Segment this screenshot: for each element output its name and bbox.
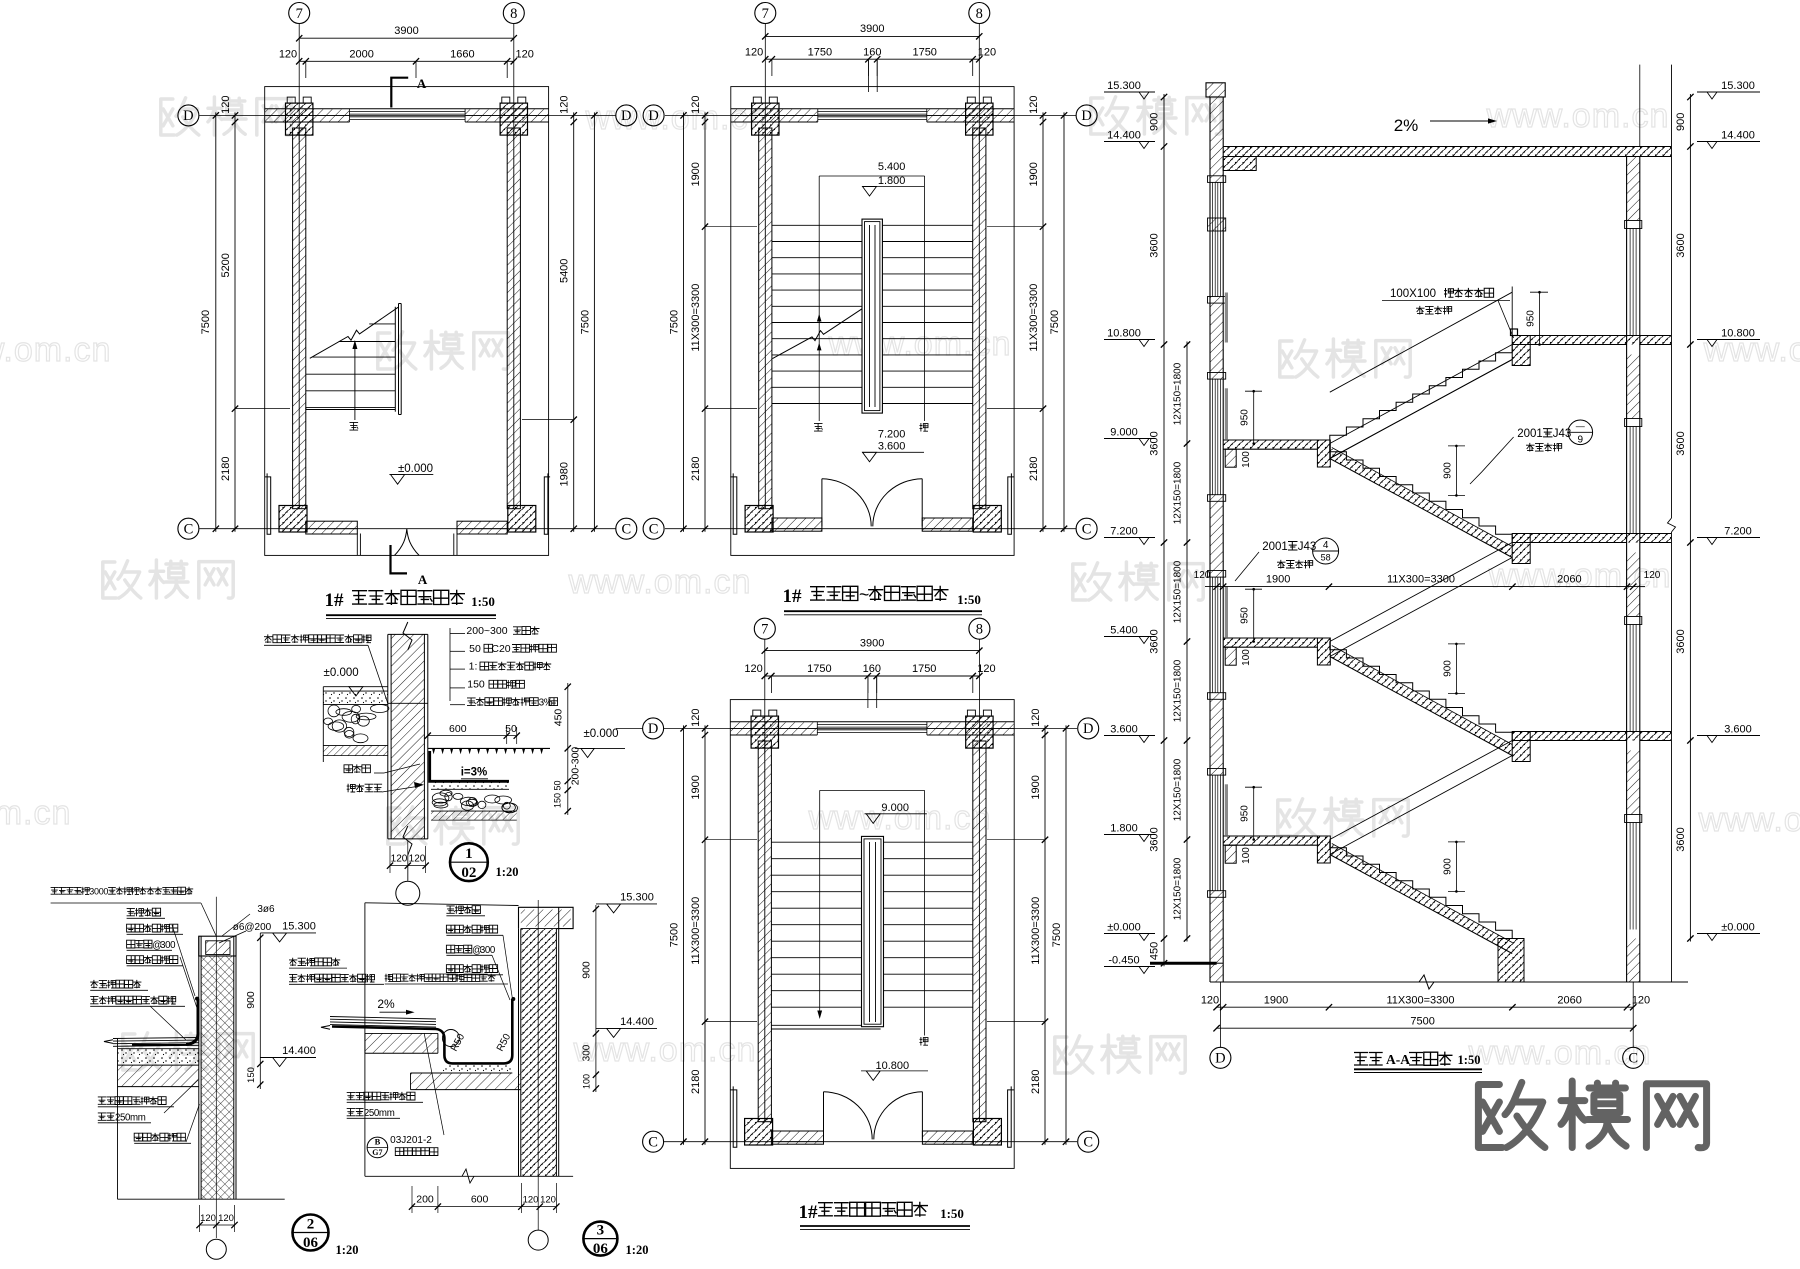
sectioned flight going down <box>1330 444 1512 543</box>
svg-text:2180: 2180 <box>690 456 702 480</box>
svg-text:2: 2 <box>307 1217 315 1233</box>
plan3 left dims <box>704 725 706 1144</box>
detail2 roof layers left <box>113 1038 199 1039</box>
svg-text:5200: 5200 <box>220 253 232 277</box>
section bottom axis extensions and bubbles <box>1219 982 1221 1047</box>
plan outer boundary <box>731 87 1014 556</box>
plan2 bottom wall centre line <box>772 528 822 530</box>
svg-text:±0.000: ±0.000 <box>324 667 359 679</box>
svg-text:1#: 1# <box>799 1202 819 1223</box>
columns on axes 7 and 8 <box>286 103 313 135</box>
detail2 levels <box>260 932 316 934</box>
window in left wall <box>1212 775 1214 891</box>
detail1 right dims <box>567 683 569 815</box>
svg-text:D: D <box>621 108 631 124</box>
svg-text:50: 50 <box>553 780 563 790</box>
ground line <box>1210 981 1688 983</box>
svg-text:1750: 1750 <box>808 46 832 58</box>
svg-text:9: 9 <box>1578 435 1584 446</box>
detail2 ref circle 2/06 <box>293 1215 329 1251</box>
svg-text:1980: 1980 <box>559 462 571 486</box>
svg-text:D: D <box>1083 721 1093 737</box>
svg-text:200-300: 200-300 <box>570 747 582 786</box>
svg-text:200~300: 200~300 <box>466 625 507 637</box>
landing slabs left side <box>1223 836 1328 845</box>
svg-text:450: 450 <box>1149 942 1161 960</box>
100x100 upstand at 10.800 <box>1511 329 1518 336</box>
minus 0.450 floor line <box>1150 962 1217 965</box>
svg-text:100: 100 <box>582 1074 592 1089</box>
svg-text:7: 7 <box>762 6 769 22</box>
svg-text:1:20: 1:20 <box>626 1243 649 1257</box>
svg-text:14.400: 14.400 <box>1107 130 1141 142</box>
columns on axes 7 and 8 <box>751 716 778 748</box>
svg-text:9.000: 9.000 <box>881 802 909 814</box>
svg-text:1:50: 1:50 <box>957 592 981 607</box>
detail1 ref circle 1/02 <box>450 843 488 881</box>
bottom corner columns <box>745 1119 773 1146</box>
section right dim column <box>1689 94 1691 942</box>
window in left wall <box>1212 182 1214 296</box>
svg-text:1750: 1750 <box>912 663 936 675</box>
sectioned flight going down <box>1330 840 1512 939</box>
left wall <box>758 741 771 1122</box>
detail2 wall centreline <box>215 897 217 1238</box>
svg-text:±0.000: ±0.000 <box>1107 922 1141 934</box>
svg-text:1900: 1900 <box>690 162 702 186</box>
svg-text:m: m <box>138 1113 146 1124</box>
svg-text:C: C <box>649 522 659 538</box>
svg-text:~: ~ <box>859 585 869 605</box>
svg-text:0: 0 <box>170 940 176 951</box>
plan outer boundary <box>730 700 1014 1169</box>
detail3 left notes <box>289 958 340 966</box>
svg-text:120: 120 <box>391 854 408 865</box>
svg-text:7500: 7500 <box>669 310 681 334</box>
plan2 bottom walls <box>772 518 822 531</box>
svg-text:1: 1 <box>465 846 473 862</box>
plan2 dim 3900 <box>765 35 979 37</box>
svg-text:3900: 3900 <box>860 637 884 649</box>
detail1 damp-proof labels <box>344 764 370 773</box>
section left parapet <box>1206 83 1225 97</box>
svg-text:11X300=3300: 11X300=3300 <box>1387 574 1455 586</box>
svg-text:120: 120 <box>279 49 297 61</box>
svg-text:900: 900 <box>245 991 257 1009</box>
svg-text:120: 120 <box>540 1195 556 1206</box>
svg-text:7: 7 <box>761 622 768 638</box>
svg-text:7500: 7500 <box>1051 923 1063 947</box>
svg-text:7.200: 7.200 <box>1724 526 1752 538</box>
plan2 central rail <box>862 219 882 413</box>
svg-text:150: 150 <box>553 793 563 808</box>
plan2 wing walls <box>730 473 737 534</box>
plan1 axis extension lines <box>298 24 300 141</box>
top wall with window <box>731 108 1014 110</box>
plan1 axis D bubble right <box>616 105 637 126</box>
950 dim top right <box>1539 292 1541 344</box>
plan3 label down <box>920 1037 929 1046</box>
svg-text:100: 100 <box>1241 451 1252 468</box>
detail3 right dims <box>595 905 597 1092</box>
far flight outline going up <box>1330 345 1512 444</box>
svg-text:i=3%: i=3% <box>461 767 488 779</box>
detail1 dim 600 50 <box>428 735 517 737</box>
plan2 label down <box>920 423 929 432</box>
top flight 9.000 to 10.800 <box>1330 345 1512 444</box>
svg-text:±0.000: ±0.000 <box>583 728 618 740</box>
detail2 note texts <box>51 886 194 896</box>
detail1 left floor layers <box>323 691 388 704</box>
svg-text:2001: 2001 <box>1262 541 1288 553</box>
detail2 bottom boundary <box>118 1198 285 1200</box>
svg-text:06: 06 <box>303 1235 319 1251</box>
svg-text:8: 8 <box>976 6 983 22</box>
svg-text:100: 100 <box>1241 847 1252 864</box>
plan3 dim 3900 <box>765 650 980 652</box>
right boundary line <box>1671 65 1673 518</box>
detail3 boundary <box>364 903 366 1177</box>
detail2 right dims <box>259 933 261 1089</box>
svg-text:120: 120 <box>745 46 763 58</box>
detail1 axis stub circle <box>396 881 420 905</box>
plan1 break line with zigzag <box>310 307 399 359</box>
svg-text:1#: 1# <box>783 586 803 607</box>
plan1 axis 8 bubble <box>503 3 524 24</box>
svg-text:12X150=1800: 12X150=1800 <box>1173 461 1184 524</box>
svg-text:120: 120 <box>218 1213 234 1224</box>
svg-text:120: 120 <box>977 663 995 675</box>
plan3 double door <box>823 1092 825 1140</box>
svg-text:150: 150 <box>246 1067 257 1083</box>
svg-text:120: 120 <box>516 49 534 61</box>
plan3 central rail <box>862 836 884 1026</box>
plan1 axis C bubble right <box>616 518 637 539</box>
landing left beam <box>1225 845 1236 863</box>
section left dim columns <box>1163 94 1165 966</box>
plan3 stair treads <box>771 841 972 843</box>
plan3 walk path + down arrow <box>820 789 925 791</box>
svg-text:3: 3 <box>597 1223 605 1239</box>
plan1 axis C bubble left <box>178 518 199 539</box>
plan2 axis bubbles <box>643 105 664 126</box>
bottom corner columns <box>745 506 773 533</box>
svg-text:D: D <box>183 108 193 124</box>
detail3 parapet cap with lip <box>519 907 574 928</box>
svg-text:ø6@200: ø6@200 <box>233 922 272 933</box>
svg-text:www.om.cn: www.om.cn <box>1698 801 1800 839</box>
svg-text:12X150=1800: 12X150=1800 <box>1173 758 1184 821</box>
svg-text:9.000: 9.000 <box>1110 427 1138 439</box>
svg-text:1900: 1900 <box>1264 995 1288 1007</box>
svg-text:120: 120 <box>1632 995 1650 1007</box>
plan1 axis D line <box>200 114 616 116</box>
svg-text:11X300=3300: 11X300=3300 <box>1030 897 1042 965</box>
svg-text:C20: C20 <box>491 643 510 655</box>
columns on axes 7 and 8 <box>752 103 779 135</box>
section right level marks <box>1697 91 1760 93</box>
svg-text:C: C <box>1628 1051 1638 1067</box>
svg-text:2000: 2000 <box>349 49 373 61</box>
detail3 axis stub circle <box>528 1230 548 1250</box>
plan1 door jamb lines <box>356 534 358 556</box>
svg-text:2001: 2001 <box>1517 428 1543 440</box>
plan1 section cut flag A (bottom) <box>391 545 408 573</box>
plan1 axis C line <box>200 528 616 530</box>
top wall with window <box>265 108 549 110</box>
plan2 path arrows <box>817 314 822 322</box>
plan1 dim row 120/2000/1660/120 <box>299 60 514 62</box>
svg-text:900: 900 <box>1442 858 1453 875</box>
svg-text:D: D <box>1081 108 1091 124</box>
svg-text:D: D <box>1215 1051 1225 1067</box>
plan1 wing wall left <box>265 473 271 534</box>
svg-text:5.400: 5.400 <box>878 161 906 173</box>
section mid dim row at 7.200 <box>1205 586 1645 588</box>
slab edge beam <box>1512 336 1530 366</box>
detail3 wall centreline <box>537 900 539 1230</box>
svg-text:3600: 3600 <box>1675 629 1687 653</box>
detail1 notes right with leader bracket <box>449 628 451 701</box>
window in left wall <box>1212 379 1214 495</box>
landing left beam <box>1225 647 1236 665</box>
svg-text:120: 120 <box>409 854 426 865</box>
svg-text:120: 120 <box>690 709 702 727</box>
svg-text:3600: 3600 <box>1149 431 1161 455</box>
detail3 top note texts <box>446 905 480 913</box>
svg-text:1.800: 1.800 <box>1110 823 1138 835</box>
svg-text:950: 950 <box>1240 607 1251 624</box>
floor slabs right side <box>1512 732 1671 741</box>
svg-text:2180: 2180 <box>220 456 232 480</box>
svg-text:950: 950 <box>1240 805 1251 822</box>
top window mid block <box>1208 218 1226 231</box>
svg-text:120: 120 <box>523 1195 539 1206</box>
svg-text:1:: 1: <box>469 661 478 673</box>
plan3 axis 8 bubble <box>969 618 990 639</box>
svg-text:1:50: 1:50 <box>1458 1053 1481 1067</box>
section right wall <box>1627 157 1640 221</box>
svg-text:C: C <box>1083 1135 1093 1151</box>
sectioned flight going down <box>1330 642 1512 741</box>
svg-text:0: 0 <box>103 886 108 896</box>
svg-text:1:20: 1:20 <box>336 1243 359 1257</box>
svg-text:C: C <box>621 522 631 538</box>
svg-text:4: 4 <box>1323 540 1329 551</box>
svg-text:8: 8 <box>976 622 983 638</box>
svg-text:-0.450: -0.450 <box>1108 955 1139 967</box>
svg-text:120: 120 <box>220 96 232 114</box>
detail1 wall <box>391 634 424 839</box>
svg-text:1750: 1750 <box>912 46 936 58</box>
svg-text:600: 600 <box>449 723 467 735</box>
detail1 waterproof L (thick) <box>430 751 509 781</box>
svg-text:3ø6: 3ø6 <box>257 904 275 915</box>
svg-text:450: 450 <box>553 709 565 727</box>
slab edge beam <box>1512 732 1530 762</box>
svg-text:3600: 3600 <box>1149 827 1161 851</box>
svg-text:8: 8 <box>510 6 517 22</box>
detail1 bottom dims 120 120 <box>390 865 426 867</box>
svg-text:3900: 3900 <box>860 23 884 35</box>
svg-text:1:50: 1:50 <box>471 594 495 609</box>
svg-text:7.200: 7.200 <box>878 429 906 441</box>
far flight outline going up <box>1330 543 1512 642</box>
plan3 wing walls <box>730 1086 737 1147</box>
detail2 membrane up the wall (thick) <box>132 1044 186 1046</box>
svg-text:950: 950 <box>1526 310 1537 327</box>
svg-text:1900: 1900 <box>1028 162 1040 186</box>
detail1 tie line to axis D <box>616 727 643 729</box>
svg-text:1#: 1# <box>325 590 345 611</box>
svg-text:300: 300 <box>582 1044 593 1061</box>
svg-text:900: 900 <box>1149 113 1161 131</box>
svg-text:www.om.cn: www.om.cn <box>568 563 752 601</box>
svg-text:15.300: 15.300 <box>282 921 316 933</box>
plan3 axis lines D C <box>664 727 1077 729</box>
plan1 stair flight <box>369 323 395 325</box>
big gray watermark bottom right <box>1478 1081 1706 1148</box>
plan1 stair rail double line <box>394 307 396 412</box>
plan2 walk path lines <box>818 176 820 421</box>
plan outer boundary <box>265 87 549 556</box>
svg-text:3600: 3600 <box>1675 233 1687 257</box>
svg-text:12X150=1800: 12X150=1800 <box>1173 659 1184 722</box>
svg-text:120: 120 <box>1201 995 1219 1007</box>
svg-text:03J201-2: 03J201-2 <box>390 1135 432 1146</box>
detail2 parapet wall <box>201 956 234 1199</box>
svg-text:11X300=3300: 11X300=3300 <box>1386 995 1454 1007</box>
svg-text:120: 120 <box>1194 570 1211 581</box>
svg-text:7500: 7500 <box>200 310 212 334</box>
svg-text:900: 900 <box>581 961 593 979</box>
section left wall <box>1210 97 1223 182</box>
svg-text:G7: G7 <box>372 1148 382 1157</box>
svg-text:06: 06 <box>593 1241 609 1257</box>
treads <box>772 224 973 226</box>
plan2 dim extension lines <box>705 226 757 228</box>
svg-text:2060: 2060 <box>1557 574 1581 586</box>
plan1 bottom wall left segment <box>306 521 358 534</box>
plan1 label up <box>350 422 359 430</box>
svg-text:02: 02 <box>461 865 476 881</box>
svg-text:15.300: 15.300 <box>620 892 654 904</box>
plan1 bottom wall centre line <box>306 528 358 530</box>
left wall <box>293 128 306 509</box>
svg-text:2%: 2% <box>377 997 395 1011</box>
svg-text:D: D <box>648 108 658 124</box>
detail3 wall <box>521 929 557 1177</box>
svg-text:12X150=1800: 12X150=1800 <box>1173 560 1184 623</box>
svg-text:1900: 1900 <box>1030 775 1042 799</box>
detail1 left rubble <box>336 709 352 716</box>
svg-text:58: 58 <box>1321 553 1331 563</box>
svg-text:3600: 3600 <box>1149 233 1161 257</box>
landing left beam <box>1225 449 1236 467</box>
plan1 wing wall right <box>544 473 550 534</box>
detail2 parapet cap <box>199 936 236 956</box>
title section <box>1354 1053 1383 1066</box>
landing edge downstand <box>1317 440 1330 467</box>
svg-text:www.om.cn: www.om.cn <box>573 1031 757 1069</box>
svg-text:A: A <box>417 76 427 91</box>
svg-text:3900: 3900 <box>394 25 418 37</box>
detail2 bottom dims <box>200 1224 235 1226</box>
plan2 axis 7 bubble <box>755 3 776 24</box>
svg-text:2060: 2060 <box>1557 995 1581 1007</box>
svg-text:2180: 2180 <box>1028 456 1040 480</box>
svg-text:1.800: 1.800 <box>878 175 906 187</box>
plan2 dim row 120/1750/160/1750/120 <box>765 58 979 60</box>
svg-text:600: 600 <box>471 1194 489 1206</box>
svg-text:m: m <box>387 1108 395 1119</box>
svg-text:www.om.cn: www.om.cn <box>0 331 111 369</box>
detail3 levels <box>596 903 657 905</box>
svg-text:1:20: 1:20 <box>496 865 519 879</box>
plan1 right dims <box>573 112 575 531</box>
detail1 wall break marks <box>403 622 412 650</box>
svg-text:15.300: 15.300 <box>1107 80 1141 92</box>
svg-text:10.800: 10.800 <box>1107 328 1141 340</box>
svg-text:C: C <box>648 1135 658 1151</box>
svg-text:3.600: 3.600 <box>1724 724 1752 736</box>
plan3 axis 7 bubble <box>754 618 775 639</box>
900 mid-flight dims <box>1455 842 1457 892</box>
svg-text:D: D <box>648 721 658 737</box>
svg-text:0: 0 <box>490 945 496 956</box>
plan2 axis lines D C <box>665 114 1076 116</box>
plan3 right dims <box>1044 725 1046 1144</box>
svg-text:120: 120 <box>559 96 571 114</box>
svg-text:14.400: 14.400 <box>620 1016 654 1028</box>
svg-text:120: 120 <box>1030 709 1042 727</box>
svg-text:3600: 3600 <box>1675 431 1687 455</box>
svg-text:200: 200 <box>416 1194 434 1206</box>
svg-text:120: 120 <box>690 96 702 114</box>
svg-text:A-A: A-A <box>1386 1052 1410 1067</box>
plan1 up arrow <box>354 344 356 420</box>
top wall with window <box>730 721 1014 723</box>
plan3 axis bubbles <box>643 718 664 739</box>
right wall <box>507 128 520 509</box>
landing edge downstand <box>1317 638 1330 665</box>
svg-text:7500: 7500 <box>580 310 592 334</box>
left wall <box>759 128 772 509</box>
detail1 top-left note <box>264 634 371 643</box>
plan3 landing edge double line <box>771 1024 880 1026</box>
plan3 dim row 120/1750/160/1750/120 <box>765 675 980 677</box>
plan1 dim extension lines <box>235 408 290 410</box>
svg-text:1900: 1900 <box>1266 574 1290 586</box>
bottom flight foundation <box>1498 939 1524 983</box>
svg-text:11X300=3300: 11X300=3300 <box>690 284 702 352</box>
svg-text:14.400: 14.400 <box>282 1045 316 1057</box>
roof slab 14.400 <box>1223 147 1671 157</box>
watermark tiles <box>161 97 291 135</box>
plan1 axis 7 bubble <box>289 3 310 24</box>
svg-text:—: — <box>1576 421 1585 431</box>
roof guard railing line <box>1330 292 1512 392</box>
svg-text:100X100: 100X100 <box>1390 288 1436 300</box>
detail2 axis stub circle <box>206 1239 226 1259</box>
detail1 right floor layers <box>431 781 509 789</box>
bottom corner columns <box>279 506 307 533</box>
plan3 bottom walls <box>771 1131 823 1144</box>
svg-text:www.om.cn: www.om.cn <box>1486 97 1670 135</box>
svg-text:C: C <box>184 522 194 538</box>
plan2 break line <box>773 309 863 359</box>
svg-text:120: 120 <box>1028 96 1040 114</box>
